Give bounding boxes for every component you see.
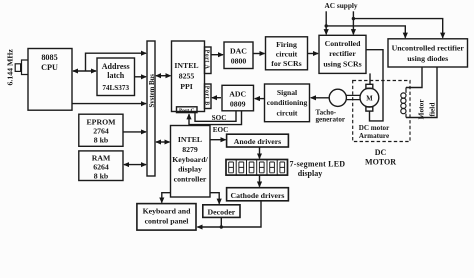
- anode drivers box: [227, 134, 289, 147]
- wire uncontrolled rectifier to field coil bottom: [406, 67, 437, 118]
- wire controlled rectifier right loop to armature bottom: [366, 50, 383, 121]
- EPROM 2764: [79, 114, 123, 146]
- svg-text:AC supply: AC supply: [325, 1, 358, 10]
- wire ADC to port B: [212, 97, 221, 99]
- svg-text:0809: 0809: [230, 100, 246, 109]
- port B box: [205, 84, 212, 109]
- wire anode drivers to display: [259, 147, 261, 159]
- svg-text:74LS373: 74LS373: [102, 84, 129, 92]
- svg-text:8279: 8279: [182, 145, 198, 154]
- svg-text:MOTOR: MOTOR: [365, 158, 396, 167]
- svg-text:INTEL: INTEL: [178, 135, 202, 144]
- wire AC supply right to controlled rectifier: [352, 11, 354, 34]
- wire CPU to address latch (bidirectional): [73, 70, 96, 72]
- svg-text:DAC: DAC: [230, 47, 247, 56]
- wire signal conditioning to ADC: [255, 98, 264, 100]
- port C box: [177, 107, 198, 113]
- motor M armature circle with brushes: [360, 84, 379, 111]
- RAM 6264: [79, 151, 123, 181]
- svg-text:Port B: Port B: [203, 86, 209, 106]
- wire system bus to 8279 (bidirectional): [156, 141, 170, 143]
- svg-text:8255: 8255: [179, 72, 195, 81]
- system bus bar: [147, 41, 155, 176]
- svg-text:RAM: RAM: [92, 154, 111, 163]
- wire CPU control lines to system bus: [72, 103, 146, 105]
- wire address latch to system bus: [135, 76, 147, 78]
- wire DAC to firing circuit: [253, 53, 265, 55]
- svg-text:ADC: ADC: [229, 90, 246, 99]
- svg-text:Keyboard and: Keyboard and: [143, 207, 192, 216]
- svg-text:latch: latch: [107, 71, 124, 80]
- wire EPROM to system bus: [123, 131, 146, 133]
- svg-text:circuit: circuit: [276, 50, 298, 59]
- svg-text:EPROM: EPROM: [86, 118, 116, 127]
- svg-text:Port C: Port C: [179, 108, 195, 114]
- svg-text:control panel: control panel: [145, 217, 190, 226]
- svg-text:using diodes: using diodes: [407, 54, 448, 63]
- controlled rectifier box: [319, 35, 366, 73]
- wire firing circuit to controlled rectifier: [308, 53, 319, 55]
- svg-text:controller: controller: [174, 175, 207, 184]
- cathode drivers box: [227, 188, 289, 201]
- wire display to cathode drivers: [259, 175, 261, 187]
- wire port A to DAC: [211, 54, 223, 56]
- tachogenerator TG circle: [329, 89, 346, 106]
- wire branch from CPU/latch wire up to system bus: [86, 53, 147, 71]
- svg-text:for SCRs: for SCRs: [271, 59, 301, 68]
- svg-text:CPU: CPU: [41, 63, 58, 72]
- motor field coil L1: [401, 88, 406, 118]
- svg-text:6.144 MHz: 6.144 MHz: [6, 49, 15, 86]
- svg-text:circuit: circuit: [277, 109, 298, 118]
- dashed box DC motor armature: [353, 81, 410, 142]
- wire uncontrolled rectifier to field coil top: [406, 67, 422, 88]
- firing circuit box: [266, 37, 308, 70]
- svg-text:DC: DC: [375, 148, 387, 157]
- svg-text:Decoder: Decoder: [208, 208, 236, 217]
- uncontrolled rectifier box: [388, 39, 468, 67]
- svg-text:Address: Address: [102, 62, 130, 71]
- wire controlled rectifier to motor armature top: [369, 73, 371, 84]
- svg-text:EOC: EOC: [213, 126, 229, 134]
- svg-text:generator: generator: [316, 116, 346, 124]
- port A box: [205, 47, 212, 74]
- address latch U2 74LS373: [97, 58, 135, 96]
- svg-text:Cathode drivers: Cathode drivers: [231, 191, 285, 200]
- svg-text:2764: 2764: [93, 127, 109, 136]
- PPI U3 INTEL 8255: [172, 41, 205, 112]
- wire cathode drivers down and to keyboard panel: [197, 201, 261, 227]
- svg-text:field: field: [427, 102, 436, 117]
- junction dot: [325, 24, 328, 27]
- signal conditioning circuit box: [265, 84, 310, 122]
- svg-text:8 kb: 8 kb: [94, 136, 109, 145]
- svg-text:Motor: Motor: [416, 99, 425, 120]
- svg-text:System Bus: System Bus: [149, 74, 156, 108]
- svg-text:8 kb: 8 kb: [94, 172, 109, 181]
- junction dot: [352, 17, 355, 20]
- wire tachogenerator to signal conditioning: [311, 97, 329, 99]
- svg-text:rectifier: rectifier: [329, 49, 356, 58]
- wire AC left branch to uncontrolled rectifier (lower run): [326, 26, 405, 38]
- svg-text:0800: 0800: [231, 57, 247, 66]
- svg-text:6264: 6264: [93, 163, 109, 172]
- svg-text:conditioning: conditioning: [267, 98, 308, 107]
- svg-text:Port A: Port A: [203, 50, 209, 70]
- keyboard and control panel box: [137, 204, 196, 231]
- wire AC right branch to uncontrolled rectifier (upper run): [353, 19, 442, 38]
- keyboard/display controller U4 INTEL 8279: [171, 126, 211, 198]
- wire 8279 to keyboard panel: [162, 193, 171, 203]
- wire 8279 to decoder: [210, 193, 219, 204]
- wire AC supply left to controlled rectifier: [325, 11, 327, 34]
- junction dot: [220, 225, 223, 228]
- wire decoder down to keyboard wire: [220, 217, 222, 227]
- svg-text:INTEL: INTEL: [174, 61, 198, 70]
- SOC wire from port C to ADC: [195, 112, 236, 122]
- svg-text:Firing: Firing: [276, 40, 297, 49]
- EOC wire from ADC to port C: [189, 111, 242, 124]
- svg-text:Armature: Armature: [359, 132, 389, 140]
- decoder box: [203, 205, 240, 218]
- svg-text:using SCRs: using SCRs: [323, 60, 361, 69]
- 7-segment LED display unit: [226, 160, 288, 176]
- wire RAM to system bus (bidirectional): [124, 164, 146, 166]
- svg-text:SOC: SOC: [212, 114, 227, 122]
- wire 8279 to anode drivers: [210, 139, 226, 141]
- svg-text:Controlled: Controlled: [325, 39, 361, 48]
- svg-text:display: display: [178, 165, 202, 174]
- svg-text:7-segment LED: 7-segment LED: [290, 160, 346, 169]
- svg-text:Signal: Signal: [277, 88, 297, 97]
- crystal X1 6.144 MHz: [15, 60, 28, 75]
- svg-text:PPI: PPI: [180, 82, 193, 91]
- wire system bus to 8255 (bidirectional): [156, 75, 171, 77]
- svg-text:Anode drivers: Anode drivers: [234, 137, 281, 146]
- svg-text:8085: 8085: [41, 53, 57, 62]
- svg-text:display: display: [298, 169, 322, 178]
- DAC 0800: [224, 42, 253, 69]
- svg-text:Keyboard/: Keyboard/: [172, 155, 208, 164]
- 7-segment digits: [229, 162, 285, 173]
- svg-text:Uncontrolled rectifier: Uncontrolled rectifier: [392, 44, 465, 53]
- svg-text:M: M: [366, 96, 373, 103]
- CPU U1 8085: [28, 49, 72, 111]
- shaft coupling tacho to motor: [346, 95, 360, 99]
- ADC 0809: [222, 85, 254, 111]
